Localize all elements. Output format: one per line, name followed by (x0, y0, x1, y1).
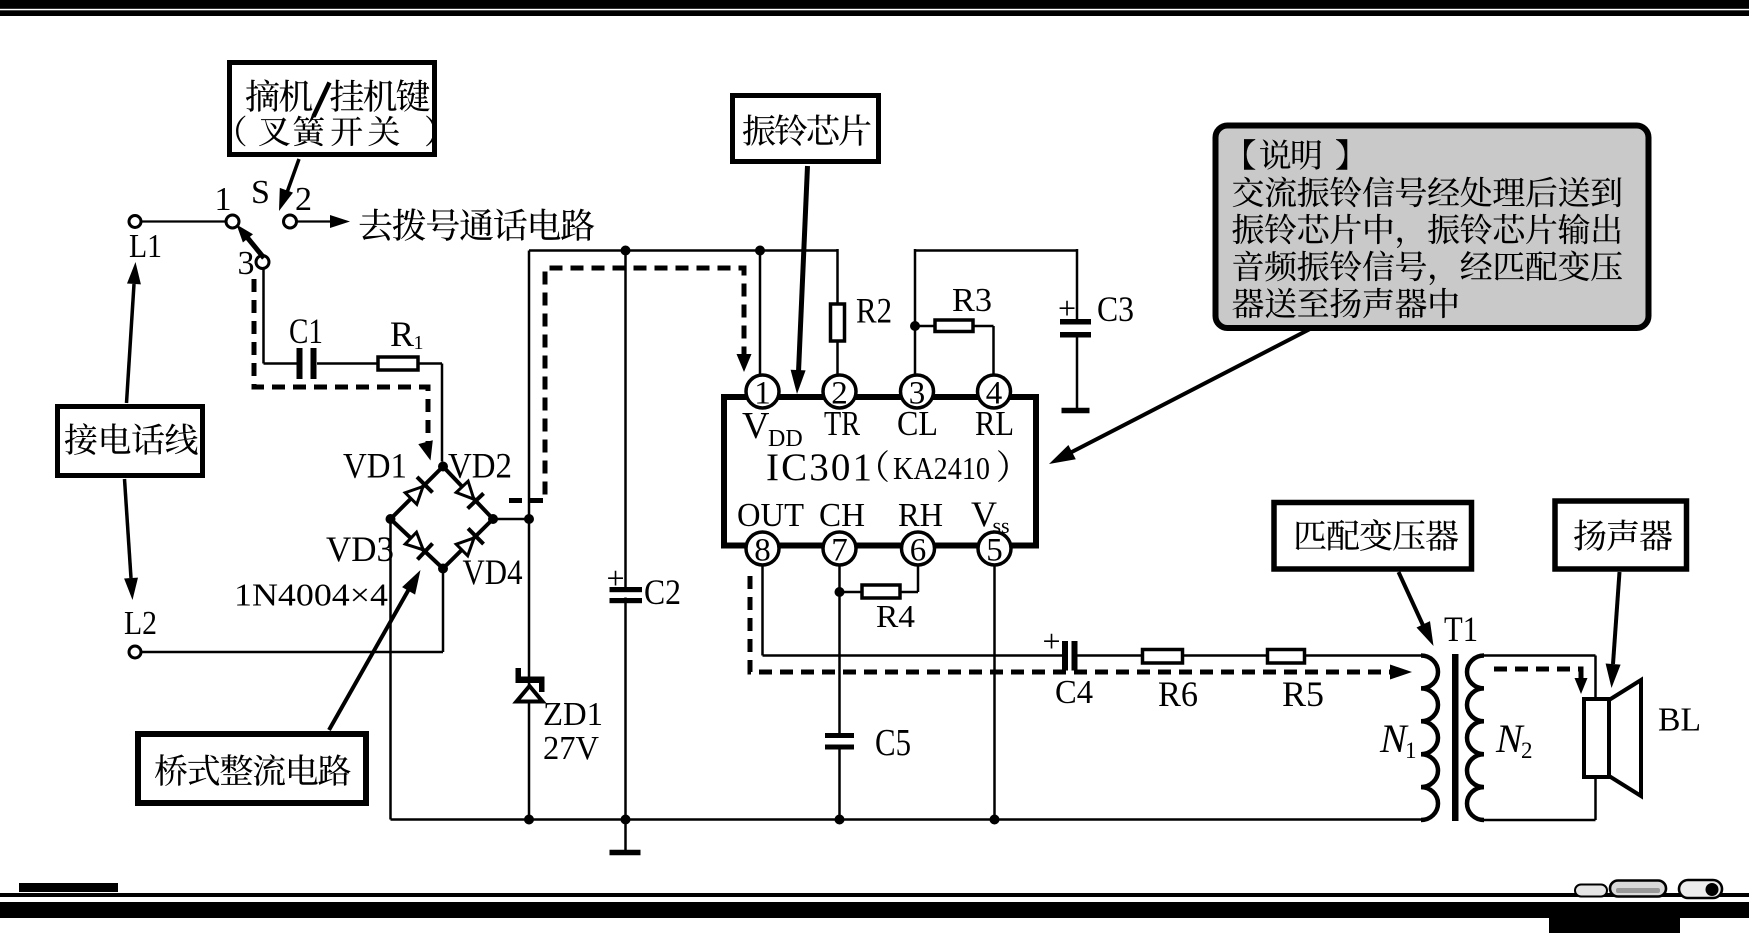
svg-text:R3: R3 (952, 282, 992, 319)
svg-text:VD3: VD3 (326, 529, 394, 569)
svg-text:1N4004×4: 1N4004×4 (234, 577, 388, 613)
svg-text:C2: C2 (644, 572, 681, 612)
svg-text:RH: RH (898, 497, 943, 534)
svg-text:1: 1 (1405, 738, 1417, 763)
svg-text:7: 7 (831, 533, 848, 569)
svg-text:+: + (606, 560, 624, 596)
svg-text:VD4: VD4 (463, 552, 523, 592)
svg-text:VD1: VD1 (343, 446, 407, 486)
svg-text:27V: 27V (543, 730, 599, 767)
svg-text:CH: CH (819, 497, 865, 534)
svg-text:2: 2 (1521, 738, 1533, 763)
svg-text:C1: C1 (289, 311, 323, 351)
svg-text:+: + (1058, 290, 1076, 326)
svg-text:S: S (251, 174, 270, 211)
svg-text:R4: R4 (876, 598, 915, 634)
svg-text:1: 1 (414, 332, 424, 354)
svg-text:1: 1 (215, 181, 232, 218)
svg-text:R: R (390, 314, 414, 354)
svg-text:R6: R6 (1158, 674, 1198, 714)
svg-text:IC301: IC301 (766, 446, 872, 489)
svg-text:8: 8 (754, 533, 771, 569)
svg-text:C3: C3 (1097, 289, 1134, 329)
svg-text:L2: L2 (124, 605, 157, 642)
svg-text:3: 3 (238, 245, 255, 282)
svg-text:BL: BL (1658, 702, 1701, 739)
svg-text:VD2: VD2 (448, 446, 512, 486)
svg-text:L1: L1 (129, 228, 162, 265)
svg-text:+: + (1042, 623, 1060, 659)
svg-text:6: 6 (910, 533, 927, 569)
svg-text:T1: T1 (1444, 609, 1478, 649)
svg-text:C4: C4 (1055, 674, 1093, 711)
svg-text:2: 2 (295, 181, 312, 218)
svg-text:ss: ss (993, 513, 1010, 538)
svg-text:RL: RL (975, 404, 1014, 443)
svg-text:CL: CL (897, 404, 938, 443)
svg-text:V: V (742, 405, 770, 447)
svg-text:TR: TR (824, 404, 861, 443)
svg-text:R5: R5 (1282, 674, 1324, 714)
svg-text:KA2410: KA2410 (893, 450, 990, 486)
svg-text:C5: C5 (875, 722, 911, 764)
svg-text:OUT: OUT (737, 497, 804, 534)
svg-text:R2: R2 (856, 291, 892, 331)
svg-text:ZD1: ZD1 (543, 696, 603, 733)
